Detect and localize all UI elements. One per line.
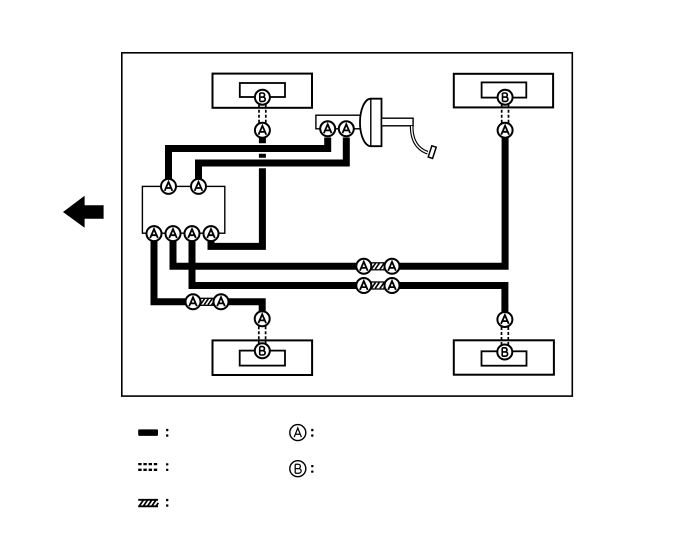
legend dashed hose swatch xyxy=(138,464,158,470)
hose: hatched tube connector (run to bottom-right wheel) xyxy=(366,282,392,289)
node A below top-left wheel xyxy=(255,123,270,138)
connector circles xyxy=(147,90,513,360)
vehicle outline frame xyxy=(122,53,573,396)
master cylinder body xyxy=(316,115,365,129)
wire: master cylinder port 2 to ABS top-right port xyxy=(199,138,347,183)
node B top-left wheel xyxy=(255,90,270,105)
circle letters xyxy=(150,93,509,356)
node A ABS bottom port 2 xyxy=(166,226,181,241)
wire casing: primary pipe run 2 xyxy=(190,158,350,169)
node A below top-right wheel xyxy=(498,123,513,138)
wheel box top-left xyxy=(213,74,313,108)
wire casing: primary pipe run 1 xyxy=(160,143,332,154)
wire: ABS port 3 to bottom-right wheel xyxy=(192,238,505,313)
node B bottom-right wheel xyxy=(497,345,512,360)
node A master cylinder port 2 xyxy=(339,121,354,136)
node A master cylinder port 1 xyxy=(320,121,335,136)
node B top-right wheel xyxy=(498,90,513,105)
wire: front-left brake pipe (top-left wheel to ABS port 4) xyxy=(211,138,262,246)
node A hatched connector mid pair run2 xyxy=(356,278,371,293)
wire: master cylinder port 1 to ABS top-left port xyxy=(169,138,328,183)
hose: bottom-right wheel dashed connector xyxy=(502,327,509,345)
node A ABS top port 1 xyxy=(161,179,176,194)
brake pedal pad xyxy=(428,146,436,159)
wheel box bottom-right xyxy=(454,340,554,374)
wheel box top-right xyxy=(454,74,553,108)
node A above bottom-right wheel xyxy=(497,312,512,327)
hose: hatched tube connector (bottom-left line) xyxy=(195,298,220,305)
brake booster xyxy=(360,99,382,147)
wheel box bottom-left xyxy=(213,340,313,375)
wire: ABS port 2 to top-right wheel xyxy=(173,138,505,266)
node A hatched connector mid pair run1 xyxy=(356,259,371,274)
node A ABS bottom port 1 xyxy=(147,226,162,241)
wire: ABS port 1 to bottom-left wheel xyxy=(154,238,262,312)
node A hatched connector left pair xyxy=(186,294,201,309)
node A ABS bottom port 4 xyxy=(204,226,219,241)
ABS actuator box xyxy=(142,186,224,233)
push rod xyxy=(382,118,414,126)
node A ABS bottom port 3 xyxy=(185,226,200,241)
legend node B symbol xyxy=(290,461,306,477)
node A ABS top port 2 xyxy=(191,179,206,194)
node B bottom-left wheel xyxy=(255,343,270,358)
front direction arrow xyxy=(63,196,104,228)
legend hatched tube swatch xyxy=(138,500,158,507)
hose: bottom-left wheel dashed connector xyxy=(259,326,266,344)
hose: top-right wheel dashed connector xyxy=(502,105,509,123)
hose: hatched tube connector (run to top-right wheel) xyxy=(366,263,392,270)
node A above bottom-left wheel xyxy=(255,311,270,326)
legend node A symbol xyxy=(290,425,306,441)
hose: top-left wheel dashed connector xyxy=(259,105,266,123)
legend solid pipe swatch xyxy=(138,429,158,436)
brake pedal arm xyxy=(412,126,428,153)
